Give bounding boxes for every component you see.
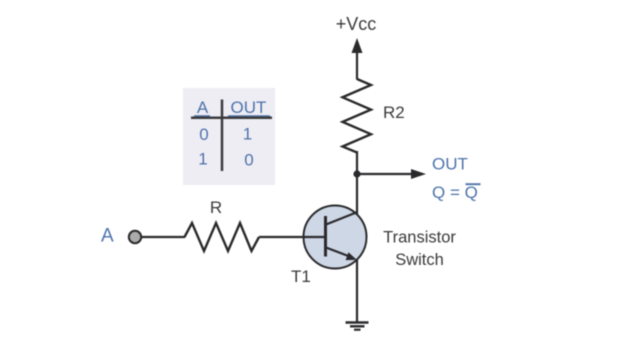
Q overbar (466, 183, 481, 185)
transistor body circle (304, 206, 367, 269)
svg-text:0: 0 (244, 151, 253, 170)
wire R2 to collector (356, 151, 358, 214)
svg-text:Transistor: Transistor (383, 228, 456, 246)
truth table header underline A (194, 115, 210, 117)
ground (346, 323, 369, 330)
svg-text:1: 1 (243, 125, 252, 144)
wire terminal to resistor R (142, 236, 186, 238)
svg-text:OUT: OUT (231, 98, 267, 117)
resistor R2 (343, 79, 372, 153)
truth table horizontal rule (191, 117, 272, 120)
svg-text:Switch: Switch (395, 251, 444, 269)
OUT arrow wire (357, 173, 414, 175)
Vcc wire (356, 50, 358, 80)
base lead inside body (303, 236, 325, 238)
svg-text:Q = Q: Q = Q (432, 183, 478, 202)
base bar (324, 216, 327, 257)
wire resistor R to base (259, 236, 325, 238)
svg-text:OUT: OUT (432, 154, 468, 173)
OUT arrowhead (411, 169, 426, 179)
resistor R (185, 223, 260, 251)
ground bar 2 (350, 325, 365, 327)
svg-text:1: 1 (198, 150, 207, 169)
truth table background (183, 88, 275, 185)
Vcc supply arrow (352, 38, 363, 53)
truth table vertical rule (221, 100, 224, 172)
svg-text:R2: R2 (383, 103, 405, 122)
emitter arrowhead (346, 252, 357, 260)
emitter lead (326, 248, 351, 258)
svg-text:R: R (210, 198, 222, 217)
svg-text:T1: T1 (291, 267, 311, 286)
input terminal (129, 231, 141, 243)
svg-text:0: 0 (199, 125, 208, 144)
collector lead (326, 212, 358, 225)
svg-text:A: A (101, 225, 114, 246)
transistor T1 (303, 206, 367, 269)
svg-text:A: A (197, 98, 209, 117)
ground bar 1 (346, 321, 369, 324)
truth table header underline OUT (228, 115, 270, 117)
node OUT junction dot (353, 170, 360, 177)
svg-text:+Vcc: +Vcc (336, 14, 377, 34)
wire emitter to ground (356, 259, 358, 322)
ground bar 3 (354, 329, 361, 331)
